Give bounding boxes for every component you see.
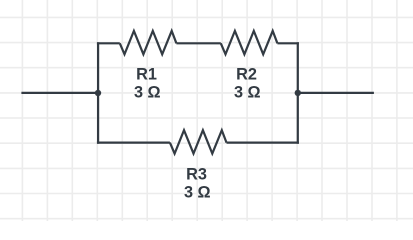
resistor R3 [170,130,227,153]
junction node left [95,90,101,96]
resistor R2 [221,31,278,54]
wire top-left segment [97,42,120,44]
wire bottom-left segment [97,142,170,144]
wire left lead [21,92,98,94]
wire left vertical [97,42,99,144]
svg-text:3 Ω: 3 Ω [234,83,261,101]
resistor R1 [120,31,177,54]
svg-text:3 Ω: 3 Ω [134,83,161,101]
svg-text:R2: R2 [236,66,257,84]
junction node right [295,90,301,96]
wire bottom-right segment [227,142,299,144]
wire right lead [298,92,374,94]
wire right vertical [297,42,299,144]
wire top-right segment [277,42,299,44]
svg-text:3 Ω: 3 Ω [184,183,211,201]
svg-text:R1: R1 [136,66,157,84]
svg-text:R3: R3 [186,166,207,184]
wire top-middle segment [176,42,220,44]
